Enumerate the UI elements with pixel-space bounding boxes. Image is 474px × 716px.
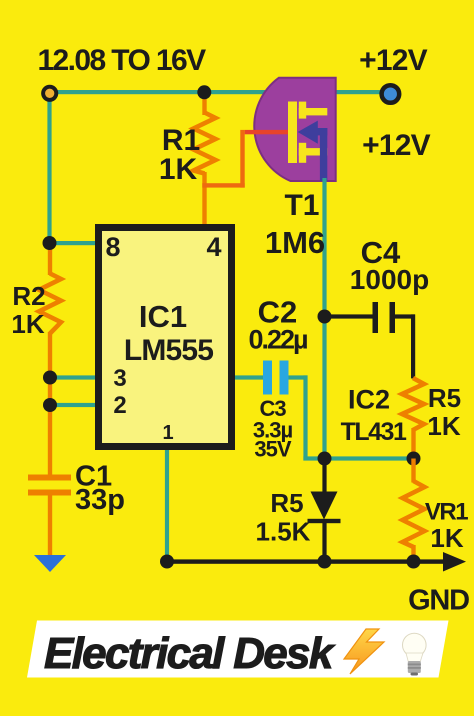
label R1 value 1K (159, 153, 198, 186)
label C4 value 1000p (350, 264, 429, 295)
junction diode/ground (318, 555, 332, 569)
banner lightning icon (344, 629, 384, 674)
wire gate branch vertical (240, 130, 244, 188)
label IC2 value TL431 (341, 418, 407, 446)
wire pin2 stub (50, 403, 96, 407)
svg-text:+12V: +12V (359, 44, 427, 77)
svg-text:1000p: 1000p (350, 264, 429, 295)
junction diode top (318, 452, 332, 466)
label T1 (284, 189, 319, 222)
pin 2 label (113, 392, 126, 419)
banner background (27, 621, 449, 678)
wire pin3 stub (50, 375, 96, 379)
wire C4 left lead (325, 314, 374, 318)
transistor T1 gate bar (288, 102, 297, 164)
svg-text:IC2: IC2 (348, 385, 390, 415)
svg-text:TL431: TL431 (341, 418, 407, 446)
transistor T1 body-diode arrow (298, 121, 328, 181)
label +12V top (359, 44, 427, 77)
svg-text:Electrical Desk: Electrical Desk (44, 629, 336, 678)
label VR1 value 1K (430, 523, 463, 553)
wire bottom node horizontal teal (303, 456, 413, 460)
svg-text:LM555: LM555 (124, 334, 213, 367)
svg-text:GND: GND (408, 585, 469, 617)
label R2 value 1K (11, 309, 44, 339)
wire R1 bottom to IC pin4 (202, 172, 206, 225)
wire top supply rail (50, 90, 383, 94)
svg-text:1.5K: 1.5K (256, 517, 311, 547)
ground rail arrow (443, 552, 466, 572)
label C2 (258, 295, 298, 330)
transistor T1 drain contact (299, 102, 328, 119)
node +12V terminal (382, 85, 400, 103)
svg-text:+12V: +12V (362, 129, 430, 162)
svg-text:33p: 33p (75, 484, 125, 516)
label IC1 (139, 299, 187, 334)
diode D1 (308, 492, 341, 524)
label supply 12.08 TO 16V (37, 44, 206, 77)
label R5 right (428, 383, 461, 413)
junction R1 top (197, 85, 211, 99)
wire gate lead (red) (245, 130, 290, 134)
wire gate branch horizontal (202, 183, 244, 187)
wire R5 bottom to node (411, 428, 415, 459)
label C3 value 3.3u (253, 418, 293, 443)
junction C4 tap (318, 310, 332, 324)
label C3 voltage 35V (254, 437, 291, 462)
wire left rail vertical (node to pin8 junction) (47, 93, 51, 245)
junction VR1/ground (407, 555, 421, 569)
label +12V lower (362, 129, 430, 162)
svg-text:R5: R5 (270, 488, 303, 518)
label IC2 (348, 385, 390, 415)
label T1 value 1M6 (265, 225, 325, 260)
svg-text:1K: 1K (11, 309, 44, 339)
label R5 diode-side (270, 488, 303, 518)
resistor R1 (194, 113, 216, 174)
wire pin1 to ground rail (165, 450, 169, 562)
svg-text:R5: R5 (428, 383, 461, 413)
pin 3 label (113, 365, 126, 392)
wire 555 output to C2 (235, 375, 265, 379)
svg-text:R2: R2 (12, 281, 45, 311)
svg-text:12.08 TO 16V: 12.08 TO 16V (37, 44, 206, 77)
label VR1 (425, 499, 468, 526)
pin 4 label (206, 232, 221, 262)
svg-text:8: 8 (105, 232, 120, 262)
svg-text:T1: T1 (284, 189, 319, 222)
label LM555 (124, 334, 213, 367)
wire R2 top lead (orange) (48, 244, 52, 275)
resistor VR1 (403, 481, 425, 547)
wire C4 right lead to R5 (395, 314, 415, 378)
label R5 right value 1K (427, 411, 460, 441)
svg-text:0.22µ: 0.22µ (248, 325, 307, 355)
transistor T1 body (254, 78, 335, 181)
wire diode cathode lead (322, 523, 326, 563)
wire C2 branch vertical down (303, 375, 307, 460)
resistor R2 (39, 274, 61, 334)
resistor R5 (1K) (402, 378, 424, 430)
capacitor C1 (28, 475, 71, 558)
wire pin8 stub (50, 241, 97, 245)
svg-text:1M6: 1M6 (265, 225, 325, 260)
svg-text:1K: 1K (430, 523, 463, 553)
svg-text:VR1: VR1 (425, 499, 468, 526)
wire C2 right to corner (289, 375, 308, 379)
svg-text:IC1: IC1 (139, 299, 187, 334)
label C1 value 33p (75, 484, 125, 516)
svg-text:4: 4 (206, 232, 221, 262)
IC IC1 LM555 body (99, 228, 232, 447)
junction pin2 (43, 398, 57, 412)
label R5 value 1.5K (256, 517, 311, 547)
wire drain teal vertical down to bottom node (322, 178, 326, 460)
junction R5/VR1 node (407, 452, 421, 466)
wire ground rail (167, 559, 447, 563)
svg-text:2: 2 (113, 392, 126, 419)
banner title Electrical Desk (44, 629, 336, 678)
wire VR1 bottom lead (411, 545, 415, 562)
capacitor C2 (263, 361, 289, 395)
node VIN terminal (43, 87, 56, 100)
label C1 (75, 461, 112, 493)
junction pin8 (43, 236, 57, 250)
svg-text:1K: 1K (159, 153, 198, 186)
junction pin1/ground (160, 555, 174, 569)
label C4 (361, 235, 401, 270)
junction pin3 (43, 371, 57, 385)
pin 8 label (105, 232, 120, 262)
label R2 (12, 281, 45, 311)
svg-text:35V: 35V (254, 437, 291, 462)
wire diode anode lead (322, 459, 326, 493)
pin 1 label (162, 422, 173, 444)
wire VR1 top lead (411, 459, 415, 483)
transistor T1 source contact (299, 143, 328, 163)
svg-text:3: 3 (113, 365, 126, 392)
label C2 value 0.22u (248, 325, 307, 355)
banner bulb icon (403, 633, 427, 675)
capacitor C4 (373, 302, 396, 333)
wire R2 bottom to pin3/pin2 junctions to C1 (48, 332, 52, 476)
wire R1 top lead (202, 92, 206, 115)
svg-text:1K: 1K (427, 411, 460, 441)
svg-text:1: 1 (162, 422, 173, 444)
ground (C1 ground triangle) (34, 555, 66, 572)
label GND (408, 585, 469, 617)
label R1 (162, 124, 200, 157)
label C3 (259, 396, 286, 421)
